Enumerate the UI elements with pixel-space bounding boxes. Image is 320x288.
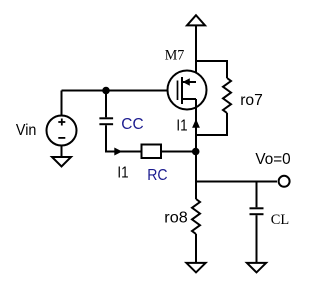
terminal Vo (279, 176, 290, 187)
ground CL (247, 263, 266, 273)
svg-text:I1: I1 (117, 165, 128, 182)
svg-text:CL: CL (271, 212, 289, 228)
wire RC to node (161, 151, 196, 153)
wire Vin top (61, 91, 63, 116)
transistor M7 (168, 71, 207, 110)
wire ro8 to ground (195, 234, 197, 264)
capacitor CC (99, 117, 113, 119)
ground ro8 (186, 263, 205, 273)
wire CC top (105, 91, 107, 118)
ground Vin (52, 157, 71, 167)
wire CL bottom (256, 215, 258, 263)
wire CL top (256, 182, 258, 208)
svg-text:M7: M7 (165, 48, 185, 64)
svg-text:Vin: Vin (16, 122, 37, 139)
wire M7 source down to ro8 (195, 99, 197, 199)
arrow I1 current (192, 121, 200, 127)
svg-text:I1: I1 (176, 117, 187, 134)
power VDD symbol (187, 15, 205, 25)
wire CC bottom (106, 125, 142, 151)
svg-text:Vo=0: Vo=0 (255, 151, 290, 168)
node dot gate (102, 87, 110, 95)
svg-text:ro7: ro7 (240, 92, 263, 109)
resistor RC (142, 145, 162, 159)
wire gate horizontal (62, 90, 177, 92)
resistor ro8 (192, 199, 200, 234)
wire ro7 top branch (196, 61, 227, 78)
svg-text:ro8: ro8 (164, 210, 188, 227)
wire output (196, 181, 277, 183)
svg-text:RC: RC (147, 167, 167, 184)
arrow I1 wire (114, 148, 122, 156)
resistor ro7 (223, 78, 231, 113)
capacitor CL (250, 207, 264, 209)
source Vin (47, 116, 77, 146)
svg-text:CC: CC (121, 116, 143, 133)
wire Vin bottom (61, 146, 63, 157)
wire VDD to M7 drain (195, 26, 197, 83)
node dot drain (192, 148, 200, 156)
wire ro7 bottom branch (196, 113, 227, 135)
